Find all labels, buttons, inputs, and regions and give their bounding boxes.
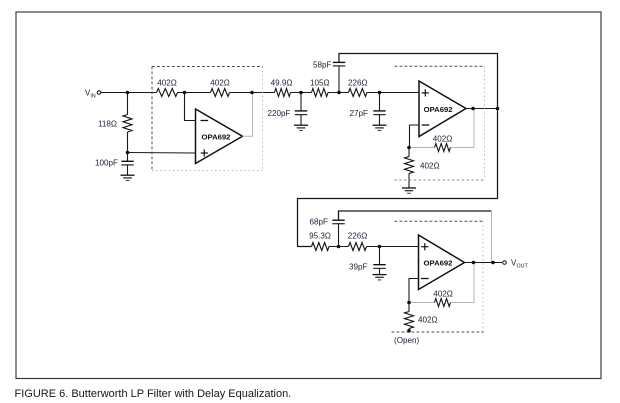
svg-text:402Ω: 402Ω	[433, 134, 453, 143]
svg-text:49.9Ω: 49.9Ω	[271, 78, 293, 87]
svg-text:402Ω: 402Ω	[433, 290, 453, 299]
svg-text:58pF: 58pF	[313, 60, 332, 69]
svg-text:68pF: 68pF	[310, 218, 329, 227]
svg-text:402Ω: 402Ω	[418, 316, 438, 325]
svg-text:FIGURE 6. Butterworth LP Filte: FIGURE 6. Butterworth LP Filter with Del…	[15, 388, 292, 400]
svg-text:OPA692: OPA692	[424, 105, 453, 114]
svg-text:OPA692: OPA692	[202, 133, 231, 142]
svg-text:402Ω: 402Ω	[210, 79, 230, 88]
svg-text:226Ω: 226Ω	[348, 78, 368, 87]
svg-text:OUT: OUT	[517, 264, 529, 270]
svg-text:100pF: 100pF	[95, 159, 118, 168]
svg-text:27pF: 27pF	[350, 109, 369, 118]
svg-text:105Ω: 105Ω	[310, 78, 330, 87]
svg-text:402Ω: 402Ω	[157, 79, 177, 88]
svg-text:OPA692: OPA692	[424, 258, 453, 267]
svg-text:402Ω: 402Ω	[420, 162, 440, 171]
svg-text:220pF: 220pF	[268, 109, 291, 118]
svg-text:226Ω: 226Ω	[348, 231, 368, 240]
svg-text:(Open): (Open)	[394, 336, 419, 345]
svg-text:IN: IN	[90, 94, 95, 100]
svg-text:39pF: 39pF	[349, 263, 368, 272]
svg-text:118Ω: 118Ω	[98, 120, 117, 129]
svg-text:95.3Ω: 95.3Ω	[309, 231, 331, 240]
